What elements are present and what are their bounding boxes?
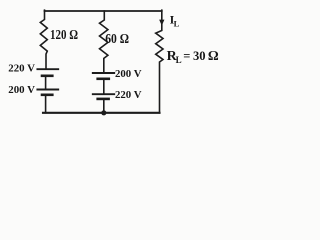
svg-text:L: L [174, 19, 180, 29]
svg-text:Ω: Ω [208, 48, 219, 63]
svg-text:L: L [176, 55, 182, 65]
svg-text:=: = [183, 49, 190, 63]
svg-text:200 V: 200 V [115, 68, 142, 80]
svg-text:220 V: 220 V [115, 89, 142, 101]
svg-text:120 Ω: 120 Ω [50, 28, 78, 43]
svg-text:60 Ω: 60 Ω [105, 32, 129, 47]
svg-text:220 V: 220 V [8, 63, 35, 75]
svg-text:30: 30 [193, 49, 206, 63]
svg-text:200 V: 200 V [8, 84, 35, 96]
